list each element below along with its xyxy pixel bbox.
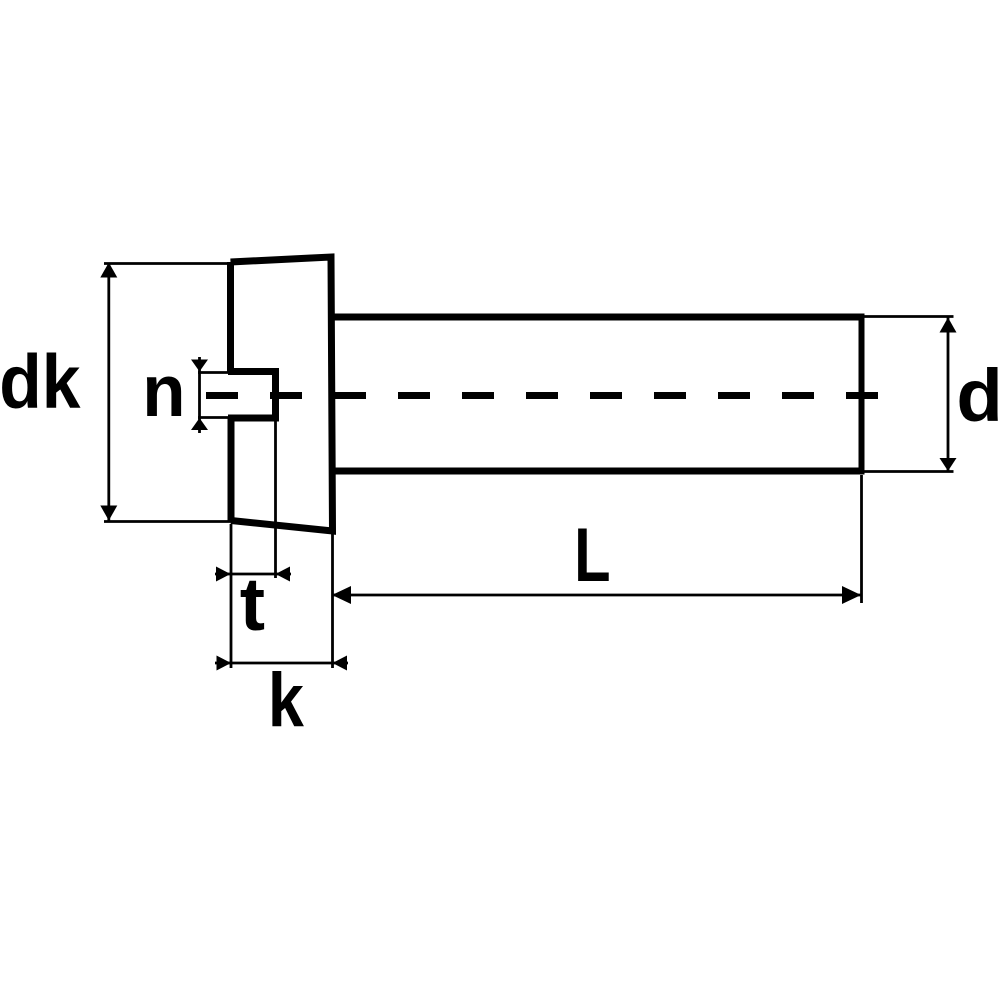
d extension line bottom — [864, 470, 954, 473]
t arrow right — [276, 567, 291, 582]
d arrow top — [940, 318, 957, 333]
k arrow right — [333, 656, 348, 671]
L arrow left — [332, 586, 351, 604]
head slot profile — [228, 372, 276, 419]
t arrow left — [216, 567, 231, 582]
t dimension line — [215, 573, 291, 576]
d dimension line — [947, 317, 950, 471]
svg-text:n: n — [142, 351, 185, 432]
L extension line left — [331, 533, 334, 668]
dk extension line bottom — [104, 520, 236, 523]
L extension line right — [860, 475, 863, 603]
n arrow top — [191, 360, 208, 372]
n dimension line — [198, 357, 201, 433]
screw head outline — [231, 257, 333, 531]
dk arrow bottom — [100, 506, 117, 521]
svg-text:t: t — [240, 563, 265, 646]
t extension line right (slot depth line) — [274, 420, 277, 578]
t / k extension line left — [230, 524, 233, 668]
svg-text:L: L — [574, 513, 610, 598]
shaft bottom line — [333, 468, 865, 475]
centerline dashed — [206, 392, 886, 399]
k dimension line — [215, 662, 348, 665]
shaft right end line — [859, 317, 865, 471]
L arrow right — [842, 586, 861, 604]
svg-text:k: k — [268, 657, 305, 742]
d extension line top — [864, 315, 954, 318]
svg-text:dk: dk — [0, 340, 81, 424]
dk arrow top — [100, 263, 117, 278]
n arrow bottom — [191, 418, 208, 430]
dk extension line top — [104, 262, 233, 265]
dk dimension line — [107, 263, 110, 521]
n extension line bottom — [198, 416, 231, 419]
svg-text:d: d — [956, 354, 1000, 437]
L dimension line — [332, 594, 862, 597]
d arrow bottom — [940, 458, 957, 471]
k arrow left — [217, 656, 232, 671]
n extension line top — [198, 371, 231, 374]
shaft top line — [333, 314, 865, 321]
